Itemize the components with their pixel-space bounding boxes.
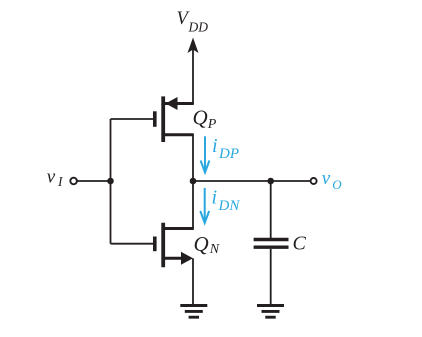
wire output node to output terminal bbox=[193, 180, 310, 182]
label iDP bbox=[212, 135, 239, 162]
QP channel bar bbox=[161, 96, 165, 142]
wire to QP gate bbox=[111, 118, 154, 120]
junction dot at drain node bbox=[190, 178, 197, 185]
svg-text:i: i bbox=[212, 187, 218, 209]
label QP bbox=[193, 106, 217, 132]
svg-text:DD: DD bbox=[188, 20, 209, 35]
node VDD label bbox=[177, 9, 209, 35]
svg-text:N: N bbox=[209, 242, 220, 257]
QN source lead (bottom) bbox=[163, 257, 183, 260]
QP source arrowhead (points left) bbox=[166, 97, 178, 110]
QN source arrowhead (points right) bbox=[181, 252, 193, 265]
output terminal circle bbox=[311, 178, 317, 184]
svg-text:Q: Q bbox=[194, 232, 209, 256]
wire to VDD with arrow bbox=[188, 38, 199, 105]
svg-text:v: v bbox=[322, 168, 331, 189]
capacitor C plates bbox=[254, 240, 289, 248]
transistor QN (NMOS) bbox=[155, 223, 194, 267]
input terminal circle bbox=[70, 178, 77, 185]
svg-text:v: v bbox=[47, 166, 56, 187]
wire gate vertical bbox=[110, 119, 112, 244]
QN drain lead (top) bbox=[163, 227, 194, 230]
node vI label bbox=[47, 166, 64, 189]
wire node to capacitor bbox=[270, 181, 272, 238]
svg-text:i: i bbox=[212, 135, 218, 157]
svg-text:C: C bbox=[293, 233, 307, 255]
QP drain lead (bottom) bbox=[163, 133, 194, 136]
label QN bbox=[194, 232, 220, 257]
wire QP drain to output node bbox=[192, 135, 194, 181]
node vO label bbox=[322, 168, 343, 192]
transistor QP (PMOS) bbox=[155, 96, 194, 142]
QP gate bar bbox=[153, 111, 157, 127]
svg-text:P: P bbox=[207, 117, 217, 132]
svg-text:DP: DP bbox=[218, 146, 239, 162]
wire capacitor to ground bbox=[270, 249, 272, 306]
wire to QN gate bbox=[111, 243, 154, 245]
wire input terminal to gate node bbox=[77, 180, 110, 182]
ground under capacitor bbox=[257, 306, 284, 318]
QN channel bar bbox=[161, 223, 165, 267]
svg-text:O: O bbox=[332, 177, 342, 192]
svg-text:Q: Q bbox=[193, 106, 208, 130]
label iDN bbox=[212, 187, 241, 214]
QN gate bar bbox=[153, 237, 157, 252]
QP source lead (top) bbox=[165, 102, 194, 105]
current arrow iDP bbox=[201, 136, 210, 172]
ground under QN bbox=[180, 306, 207, 318]
junction dot at capacitor node bbox=[267, 178, 274, 185]
current arrow iDN bbox=[200, 188, 209, 223]
wire QN source to ground bbox=[192, 258, 194, 305]
wire output node to QN drain bbox=[192, 181, 194, 229]
svg-text:DN: DN bbox=[218, 198, 241, 214]
junction dot at gate node bbox=[107, 178, 114, 185]
